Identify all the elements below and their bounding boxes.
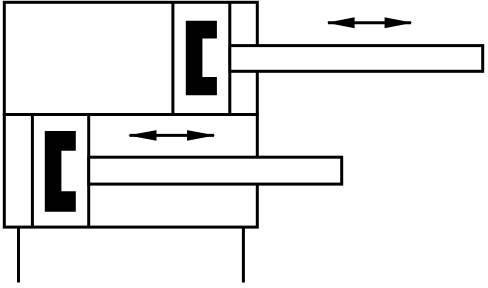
left mounting pin [17,227,20,282]
right mounting pin [242,227,245,282]
divider between upper and lower cylinder [3,113,259,116]
upper piston magnet symbol [186,21,217,96]
lower stroke arrow shaft [130,134,215,137]
upper piston right edge [228,2,231,114]
upper stroke arrow left head [327,17,355,28]
upper piston left edge [171,2,174,114]
lower piston magnet symbol [45,131,76,212]
upper stroke arrow right head [385,17,413,28]
lower piston rod [89,157,342,184]
lower piston right edge [87,115,90,228]
lower stroke arrow left head [128,130,157,141]
upper stroke arrow shaft [328,21,411,24]
lower stroke arrow right head [187,130,216,141]
upper piston rod [230,46,483,72]
cylinder body outline [4,2,257,227]
lower piston left edge [31,115,34,228]
